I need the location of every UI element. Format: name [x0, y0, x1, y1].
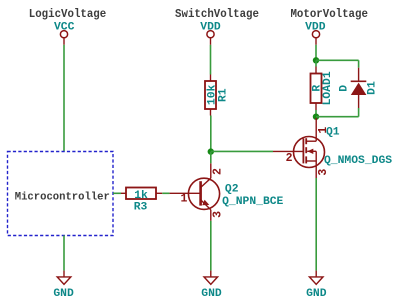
svg-text:3: 3 — [212, 211, 225, 218]
power flag VCC text — [54, 22, 75, 34]
svg-text:3: 3 — [317, 169, 330, 176]
junction node base — [208, 148, 214, 154]
R3 value 1k — [134, 190, 148, 202]
wire diode to junction bottom — [316, 116, 359, 118]
Q1 pin 3 — [317, 169, 330, 176]
net label MotorVoltage — [290, 8, 368, 22]
svg-text:GND: GND — [53, 288, 74, 300]
wire diode top — [358, 60, 360, 67]
svg-text:Q_NMOS_DGS: Q_NMOS_DGS — [324, 155, 392, 167]
svg-text:LogicVoltage: LogicVoltage — [29, 8, 107, 22]
svg-text:Microcontroller: Microcontroller — [15, 191, 110, 203]
svg-text:1k: 1k — [134, 190, 148, 202]
svg-text:1: 1 — [181, 193, 188, 206]
R3 ref — [134, 202, 148, 214]
svg-text:VDD: VDD — [200, 22, 221, 34]
ground right — [309, 271, 323, 285]
svg-text:Q1: Q1 — [326, 127, 340, 139]
R1 ref — [218, 88, 230, 102]
svg-text:10k: 10k — [206, 85, 218, 106]
Q2 pin 3 — [212, 211, 225, 218]
wire VCC to microcontroller — [63, 45, 65, 152]
junction node motor top — [313, 57, 319, 63]
junction node motor bottom — [313, 114, 319, 120]
resistor R1 — [205, 75, 216, 116]
wire R1 to junction — [210, 116, 212, 152]
wire VDD to junction top — [315, 45, 317, 61]
power flag VDD text — [200, 22, 221, 34]
svg-text:R3: R3 — [134, 202, 148, 214]
power symbol VDD switch — [207, 31, 214, 45]
D1 ref — [366, 81, 378, 95]
D1 value D — [339, 85, 351, 92]
Q1 pin 2 — [286, 152, 293, 165]
svg-text:2: 2 — [286, 152, 293, 165]
svg-text:LOAD1: LOAD1 — [322, 71, 334, 105]
svg-text:Q_NPN_BCE: Q_NPN_BCE — [222, 196, 283, 208]
Q2 pin 2 — [212, 168, 225, 175]
GND label middle — [201, 288, 222, 300]
Q2 ref — [225, 183, 239, 195]
Q2 value — [222, 196, 283, 208]
R load value — [311, 85, 323, 92]
Q1 value — [324, 155, 392, 167]
svg-text:MotorVoltage: MotorVoltage — [290, 8, 368, 22]
wire junction to Q2 collector — [210, 152, 212, 164]
wire microcontroller to R3 — [113, 192, 121, 194]
diode D1 — [351, 68, 367, 108]
resistor R3 — [121, 188, 162, 200]
power symbol VCC — [60, 31, 67, 45]
Q2 pin 1 — [181, 193, 188, 206]
wire Q1 source to GND — [315, 178, 317, 271]
Q1 pin 1 — [317, 127, 330, 134]
svg-text:VCC: VCC — [54, 22, 75, 34]
transistor Q2 — [170, 163, 220, 221]
wire R3 to Q2 base — [162, 192, 169, 194]
wire junction top to diode — [316, 59, 359, 61]
svg-text:VDD: VDD — [305, 22, 326, 34]
R load ref LOAD1 — [322, 71, 334, 105]
GND label right — [306, 288, 327, 300]
svg-text:R1: R1 — [218, 88, 230, 102]
GND label left — [53, 288, 74, 300]
ground middle — [204, 271, 218, 285]
power flag VDD motor text — [305, 22, 326, 34]
svg-text:D1: D1 — [366, 81, 378, 95]
svg-text:Q2: Q2 — [225, 183, 239, 195]
power symbol VDD motor — [312, 31, 319, 45]
wire load R to junction bottom — [315, 110, 317, 117]
wire diode bottom — [358, 108, 360, 117]
net label SwitchVoltage — [175, 8, 259, 22]
microcontroller box — [8, 152, 114, 236]
microcontroller label — [15, 191, 110, 203]
wire VDD to R1 — [210, 45, 212, 75]
svg-text:D: D — [339, 85, 351, 92]
net label LogicVoltage — [29, 8, 107, 22]
svg-text:SwitchVoltage: SwitchVoltage — [175, 8, 259, 22]
Q1 ref — [326, 127, 340, 139]
resistor R load — [311, 67, 322, 111]
wire Q2 emitter to GND — [210, 221, 212, 271]
wire junction to load R — [315, 60, 317, 66]
ground left — [57, 271, 71, 285]
svg-text:GND: GND — [201, 288, 222, 300]
transistor Q1 — [273, 118, 325, 178]
R1 value 10k — [206, 85, 218, 106]
svg-text:2: 2 — [212, 168, 225, 175]
svg-text:GND: GND — [306, 288, 327, 300]
wire microcontroller to GND — [63, 236, 65, 271]
wire junction to Q1 gate — [211, 150, 273, 152]
